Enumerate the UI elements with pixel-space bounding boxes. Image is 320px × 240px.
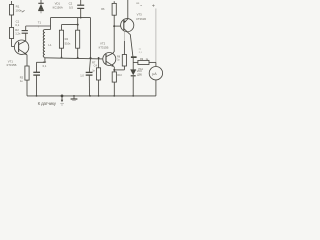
VT3 emitter to top [127,0,129,19]
label R8 [117,55,121,61]
plus supply wire [155,9,157,63]
transistor VT3 [121,19,134,35]
winding top lead [45,29,51,31]
svg-text:μА: μА [152,72,157,76]
svg-text:Д9Б: Д9Б [137,74,142,77]
label R9 [140,58,149,61]
resistor R2 [10,28,14,47]
right drop wire [90,18,92,58]
resistor R3 [25,66,29,96]
diode VD3 [130,69,136,96]
capacitor C1 [22,31,28,34]
transistor VT1 [14,40,28,55]
label R6 small [101,8,105,11]
label VD3 [137,70,142,76]
capacitor C3 [33,62,40,96]
label R7 [92,61,96,73]
svg-text:L1: L1 [48,43,52,47]
label R3 [20,76,24,84]
svg-text:R4: R4 [65,37,69,41]
arrow mark near R1 [22,10,25,12]
sensor arrow [61,96,63,101]
rail junction dots [36,95,38,97]
label C3 [43,60,47,68]
label R6 [136,3,142,7]
label PA1 [138,68,143,71]
resistor R10 [112,72,116,96]
label smudge near collector [139,49,143,54]
node drop wire [90,57,92,59]
node riser [50,18,52,30]
wire base VT1 [12,46,16,48]
VT2 emitter wire [113,67,115,72]
inner wire R4 R5 tops [62,24,78,26]
labels R4 R5 [65,37,71,45]
svg-text:1к: 1к [140,5,142,7]
svg-text:КТ315Б: КТ315Б [7,63,17,67]
meter PA1 [149,62,162,96]
label L1 [48,43,52,47]
top wire [51,17,91,19]
label VT3 [136,13,146,21]
svg-text:R3: R3 [20,76,24,80]
svg-text:R10: R10 [117,74,122,77]
transformer T1 winding [43,30,45,58]
label VD1 [53,1,63,9]
node base VT3 [113,25,115,27]
node R4 bottom [61,57,63,59]
capacitor C4 [86,58,93,96]
svg-text:РА1: РА1 [138,68,143,71]
ground rail [27,95,156,97]
VT3 collector wire [130,34,133,56]
resistor R4 [59,30,63,57]
label R2 [15,28,21,36]
transistor VT2 [103,53,116,67]
label K datchiku [38,101,57,106]
label T1 [38,21,42,29]
resistor R6 [112,1,116,26]
label C4 [80,63,97,77]
plus sign [152,3,155,9]
svg-text:К датчику: К датчику [38,101,57,106]
wire C1 to T1 top node [26,25,51,27]
svg-text:0,1: 0,1 [15,23,19,27]
svg-text:R7: R7 [92,61,96,65]
node R5 top [77,24,79,26]
label VT2 [99,42,109,50]
VT2 collector wire [113,26,114,53]
resistor R9 [133,60,156,64]
svg-text:510к: 510к [65,41,71,45]
emitter wire VT1 to R3 [26,55,28,66]
node C2 [80,17,82,19]
label R10 [117,74,122,77]
node R5 bottom [77,57,79,59]
svg-text:КС156А: КС156А [53,5,63,9]
svg-text:0,1: 0,1 [43,64,47,68]
svg-text:1,2к: 1,2к [15,32,21,36]
label R1 100k [15,5,22,13]
junction bar [131,56,137,58]
svg-text:С3: С3 [43,60,47,64]
ground marks [60,104,64,105]
resistor R8 [114,32,126,70]
zener VD1 [38,0,44,13]
collector riser to C1 [25,33,27,41]
ground [71,95,78,101]
svg-text:КТ315Б: КТ315Б [99,46,109,50]
svg-text:1,0: 1,0 [80,74,84,78]
resistor R1 [10,1,14,28]
svg-text:0,5: 0,5 [69,5,73,9]
wire to VT3 base [114,25,121,27]
sensor terminal node [61,95,64,98]
resistor R7 [97,58,101,96]
svg-text:+: + [152,3,155,9]
label C1 [15,19,19,27]
svg-text:КТ361Б: КТ361Б [136,17,146,21]
label C2 [69,2,74,10]
svg-text:100к: 100к [15,9,22,13]
svg-text:Т1: Т1 [38,21,42,25]
resistor R5 [76,30,80,57]
base bus wire [45,58,103,59]
label VT1 KT315 [7,59,17,67]
capacitor C2 [77,0,84,18]
